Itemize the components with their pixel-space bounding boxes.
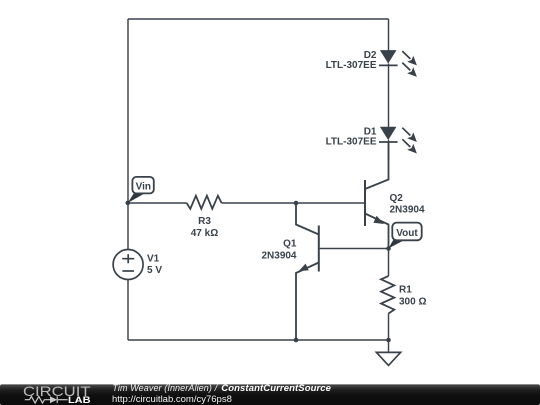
svg-text:R1: R1	[399, 285, 412, 296]
svg-text:Vin: Vin	[136, 181, 151, 192]
svg-text:V1: V1	[147, 254, 160, 265]
footer credit text	[112, 383, 332, 405]
LED D1	[379, 127, 417, 154]
wire Vin node to R3	[128, 202, 187, 204]
svg-text:http://circuitlab.com/cy76ps8: http://circuitlab.com/cy76ps8	[112, 394, 232, 405]
wire D2 to D1	[388, 64, 390, 128]
label Q2 2N3904	[390, 193, 425, 216]
node Vin junction	[126, 201, 131, 206]
net label Vout	[389, 223, 422, 249]
resistor R3	[187, 196, 222, 209]
transistor Q2 (2N3904, NPN)	[365, 142, 389, 249]
node Vout junction	[386, 246, 391, 251]
label R1 300 Ohm	[399, 285, 426, 308]
voltage source V1	[113, 250, 143, 280]
svg-text:Tim Weaver (InnerAlien) / Cons: Tim Weaver (InnerAlien) / ConstantCurren…	[112, 383, 331, 394]
svg-text:300 Ω: 300 Ω	[399, 296, 426, 307]
svg-text:D1: D1	[364, 126, 377, 137]
ground	[376, 340, 400, 365]
wire right rail top to D2	[388, 19, 390, 51]
label V1 5 V	[147, 254, 162, 277]
wire R1 to bottom rail	[388, 314, 390, 341]
svg-text:Q2: Q2	[390, 193, 404, 204]
wire bottom rail	[128, 339, 389, 341]
svg-text:R3: R3	[198, 216, 211, 227]
CircuitLab logo	[23, 383, 91, 405]
node bottom rail / Q1 emitter junction	[294, 338, 299, 343]
wire Vout to R1	[388, 249, 390, 277]
svg-text:D2: D2	[364, 50, 377, 61]
wire V1 to bottom rail	[127, 280, 129, 341]
net label Vin	[128, 177, 154, 203]
svg-text:2N3904: 2N3904	[390, 205, 425, 216]
wire left rail (top to Vin node)	[127, 19, 129, 203]
wire R3 to Q2 base	[222, 202, 365, 204]
label Q1 2N3904	[261, 239, 296, 262]
svg-text:LAB: LAB	[68, 395, 91, 405]
footer bar	[0, 384, 540, 405]
svg-text:47 kΩ: 47 kΩ	[191, 228, 218, 239]
svg-text:Vout: Vout	[396, 228, 418, 239]
svg-text:LTL-307EE: LTL-307EE	[326, 137, 377, 148]
resistor R1	[381, 276, 394, 314]
wire D1 to Q2 collector	[388, 140, 390, 160]
node Q1 collector junction	[294, 201, 299, 206]
node bottom rail / R1 junction	[386, 338, 391, 343]
svg-text:LTL-307EE: LTL-307EE	[326, 60, 377, 71]
label D1 LTL-307EE	[326, 126, 377, 147]
label R3 47 kOhm	[191, 216, 218, 239]
wire top rail	[128, 18, 389, 20]
transistor Q1 (2N3904, mirrored NPN)	[296, 203, 389, 340]
label D2 LTL-307EE	[326, 50, 377, 71]
svg-text:5 V: 5 V	[147, 265, 162, 276]
svg-text:2N3904: 2N3904	[261, 251, 296, 262]
wire Vin node to V1	[127, 203, 129, 250]
LED D2	[379, 50, 417, 77]
svg-text:Q1: Q1	[283, 239, 297, 250]
